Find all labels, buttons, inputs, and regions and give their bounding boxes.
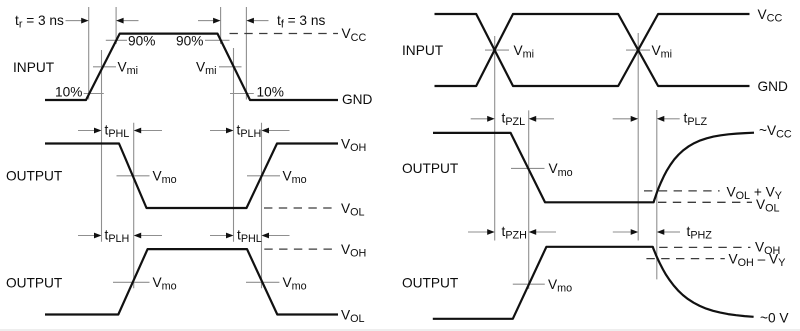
tick Vmo right mid (511, 167, 545, 169)
svg-text:90%: 90% (176, 34, 203, 49)
wire left bottom output waveform (45, 249, 338, 314)
node Vmi crossing line r1 (494, 36, 496, 241)
bottom border line (0, 329, 800, 330)
tick Vmi right 2 (626, 49, 650, 51)
arrow left at 10% falling (246, 18, 268, 24)
measure line 90% falling (left input) (220, 7, 222, 44)
tick 10% falling (230, 93, 254, 95)
tick Vmo right bottom (513, 283, 545, 285)
svg-text:tr = 3 ns: tr = 3 ns (15, 13, 64, 31)
svg-text:10%: 10% (257, 85, 284, 100)
tick Vmo bottom 1 (113, 281, 150, 283)
dashed VOL level mid (264, 207, 338, 209)
dashed VOL level right (658, 201, 752, 203)
svg-text:VOL + VY: VOL + VY (727, 184, 782, 202)
svg-text:OUTPUT: OUTPUT (402, 276, 459, 291)
arrow tPHL left (bottom) (262, 233, 290, 239)
tick 90% rising (106, 39, 127, 41)
tick Vmi falling (219, 66, 242, 68)
svg-text:INPUT: INPUT (13, 60, 55, 75)
wire right bottom output waveform (433, 247, 754, 319)
arrow tPLZ left (657, 116, 680, 122)
arrow tPZL right (471, 116, 495, 122)
svg-text:tf = 3 ns: tf = 3 ns (277, 13, 325, 31)
arrow left at 90% rising (116, 18, 138, 24)
tick Vmo mid 1 (117, 175, 150, 177)
svg-text:VOH – VY: VOH – VY (729, 251, 786, 269)
tick Vmo bottom 2 (246, 281, 279, 283)
node Vmo crossing line 2 (261, 123, 263, 289)
arrow tPLH left (mid) (262, 128, 290, 134)
wire left mid output waveform (45, 144, 338, 209)
dashed VOH level bottom (264, 248, 338, 250)
svg-text:GND: GND (342, 92, 373, 107)
arrow tPHZ right (613, 229, 638, 235)
tick 90% falling (205, 39, 230, 41)
tick 10% rising (84, 93, 104, 95)
node Vmo crossing line 1 (133, 123, 135, 289)
wire right mid output waveform (433, 133, 754, 203)
measure line 10% rising (left input) (88, 7, 90, 100)
arrow tPHL right (bottom) (210, 233, 234, 239)
tick Vmo mid 2 (247, 175, 280, 177)
node Vmi crossing line 2 (233, 48, 235, 242)
arrow tPLZ right (613, 116, 639, 122)
tick Vmi right 1 (485, 49, 509, 51)
arrow tPHL left (mid) (134, 128, 162, 134)
node Vmi crossing line 1 (101, 50, 103, 242)
svg-text:90%: 90% (128, 34, 155, 49)
svg-text:GND: GND (758, 79, 789, 94)
arrow tPHL right (mid) (78, 128, 102, 134)
dashed VOH-VY level (646, 258, 724, 260)
wire left input waveform (45, 34, 338, 100)
svg-text:OUTPUT: OUTPUT (6, 169, 63, 184)
node Vmi crossing line r2 (637, 33, 639, 241)
arrow tPZH right (468, 229, 495, 235)
svg-text:OUTPUT: OUTPUT (402, 161, 459, 176)
node Vmo crossing line r1 (528, 110, 530, 289)
svg-text:~0 V: ~0 V (760, 311, 789, 326)
arrow tPLH right (bottom) (78, 233, 102, 239)
dashed VCC level left (230, 33, 339, 35)
svg-text:INPUT: INPUT (402, 43, 444, 58)
arrow tPHZ left (657, 229, 680, 235)
arrow tPZL left (529, 116, 554, 122)
dashed VOH level right (659, 246, 750, 248)
tick Vmi rising (93, 66, 116, 68)
arrow tPLH right (mid) (210, 128, 234, 134)
arrow right at 90% falling (198, 18, 221, 24)
arrow tPLH left (bottom) (134, 233, 162, 239)
wire right input waveform B (435, 14, 750, 86)
dashed VOL+VY level (644, 190, 720, 192)
wire right input waveform A (435, 14, 750, 86)
node Z transition line r2 (656, 110, 658, 279)
measure line 10% falling (left input) (245, 7, 247, 100)
arrow tPZH left (529, 229, 556, 235)
arrow tr right (66, 18, 89, 24)
svg-text:10%: 10% (55, 85, 82, 100)
svg-text:OUTPUT: OUTPUT (6, 275, 63, 290)
measure line 90% rising (left input) (115, 7, 117, 44)
